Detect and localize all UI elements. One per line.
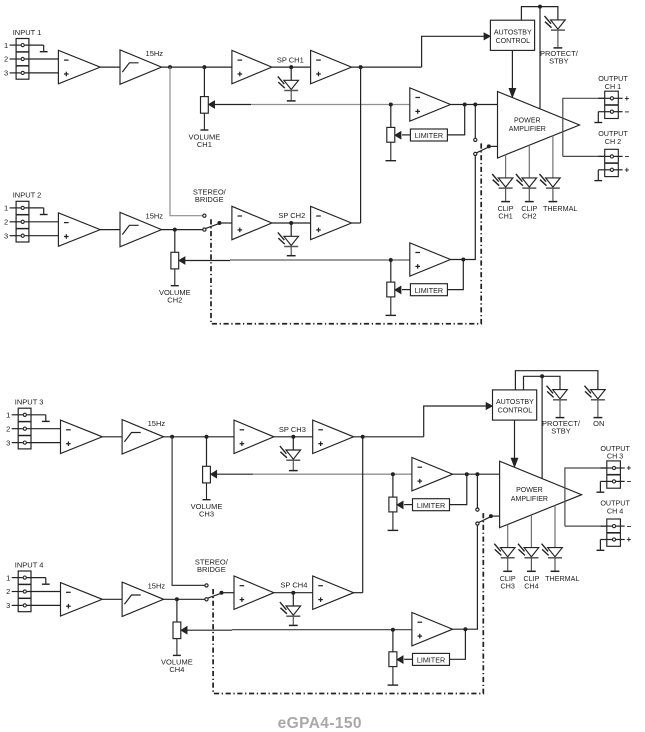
power amplifier CH3/CH4 (500, 461, 582, 528)
wire autostby to power amp with arrow (509, 50, 515, 97)
wire (274, 436, 313, 438)
wire pin3 to non-inverting input (27, 442, 61, 444)
wire pin2 to inverting input (25, 58, 59, 60)
junction (170, 435, 174, 439)
svg-text:THERMAL: THERMAL (545, 574, 579, 583)
svg-text:3: 3 (6, 601, 10, 610)
svg-text:−: − (624, 152, 629, 161)
block LIMITER CH2 (410, 284, 447, 296)
svg-text:STBY: STBY (549, 57, 569, 66)
wire (453, 473, 500, 475)
svg-text:CH2: CH2 (522, 212, 536, 221)
LED CLIP CH4 (518, 544, 539, 572)
15Hz high-pass filter CH4 (122, 582, 164, 616)
LED PROTECT/STBY (545, 16, 566, 48)
op-amp CH1 buffer (232, 50, 272, 83)
ground at input (40, 45, 48, 52)
label VOLUME CH4 (161, 658, 193, 675)
label OUTPUT CH 1 (598, 74, 628, 91)
15Hz high-pass filter CH3 (122, 420, 164, 454)
switch contact (474, 152, 477, 155)
wire (164, 598, 205, 600)
svg-text:2: 2 (6, 424, 10, 433)
input terminal block J3 (12, 408, 31, 449)
label INPUT 4 (15, 560, 44, 569)
wire (476, 474, 478, 508)
limiter level resistor CH3 (388, 497, 403, 530)
label CLIP CH2 (521, 204, 537, 220)
label STEREO/BRIDGE (195, 557, 229, 574)
volume potentiometer CH2 (171, 252, 185, 285)
label STEREO/BRIDGE (193, 188, 227, 205)
pin number 2 (4, 218, 8, 227)
wire (100, 66, 120, 68)
wire (392, 474, 394, 497)
svg-text:2: 2 (6, 587, 10, 596)
junction (291, 591, 295, 595)
op-amp CH2 buffer (232, 206, 272, 239)
svg-text:CH 2: CH 2 (605, 137, 621, 146)
svg-text:BRIDGE: BRIDGE (197, 565, 226, 574)
svg-text:CH 3: CH 3 (607, 452, 623, 461)
pin number 2 (6, 424, 10, 433)
limiter op-amp CH4 (412, 613, 453, 646)
junction (489, 514, 493, 518)
svg-text:ON: ON (593, 419, 604, 428)
wire (100, 229, 120, 231)
wire (554, 505, 556, 547)
junction (538, 5, 542, 9)
value label 15Hz (148, 581, 166, 590)
wire (206, 437, 208, 467)
wire to power amp (541, 376, 543, 478)
switch contact (476, 522, 479, 525)
wire pin3 to non-inverting input (25, 235, 59, 237)
junction (359, 65, 363, 69)
svg-text:INPUT 3: INPUT 3 (15, 398, 44, 407)
wire (489, 145, 498, 147)
svg-text:LIMITER: LIMITER (415, 286, 443, 295)
svg-text:SP CH3: SP CH3 (279, 425, 306, 434)
label THERMAL (545, 574, 579, 583)
svg-text:1: 1 (4, 204, 8, 213)
svg-text:AUTOSTBY: AUTOSTBY (496, 399, 534, 406)
svg-text:INPUT 1: INPUT 1 (13, 28, 42, 37)
pin number 3 (6, 438, 10, 447)
switch arm (477, 147, 489, 153)
svg-text:LIMITER: LIMITER (417, 656, 445, 665)
wire (290, 67, 292, 80)
wire (505, 155, 507, 178)
wire (390, 260, 392, 283)
label PROTECT/STBY (540, 49, 579, 65)
op-amp CH4 buffer (234, 576, 274, 609)
value label 15Hz (146, 49, 164, 58)
LED THERMAL (540, 174, 561, 202)
LED CLIP CH3 (494, 544, 515, 572)
svg-text:eGPA4-150: eGPA4-150 (278, 715, 362, 732)
volume potentiometer CH1 (200, 97, 214, 130)
block AUTOSTBY CONTROL (493, 390, 537, 420)
wire to stereo/bridge switch (170, 67, 203, 216)
wire limiter to resistor (402, 289, 410, 291)
svg-text:15Hz: 15Hz (146, 49, 164, 58)
junction (217, 221, 221, 225)
label CLIP CH1 (498, 204, 514, 220)
op-amp CH1 detector (311, 50, 352, 83)
wire pin2 to inverting input (27, 591, 61, 593)
input op-amp CH3 (61, 420, 103, 453)
wire pin3 to non-inverting input (25, 72, 59, 74)
wire pin2 to inverting input (25, 221, 59, 223)
label SP CH1 (277, 55, 304, 64)
svg-text:SP CH4: SP CH4 (280, 581, 307, 590)
junction (361, 435, 365, 439)
switch contact (474, 138, 477, 141)
wire to stereo/bridge switch (172, 437, 205, 586)
junction (205, 435, 209, 439)
junction (473, 103, 477, 107)
block LIMITER CH4 (413, 653, 450, 665)
wire output bus (565, 468, 607, 526)
switch contact (203, 214, 206, 217)
svg-text:BRIDGE: BRIDGE (195, 195, 224, 204)
svg-text:3: 3 (4, 69, 8, 78)
svg-text:LIMITER: LIMITER (417, 501, 445, 510)
switch contact (205, 584, 208, 587)
switch contact (476, 508, 479, 511)
wire (552, 136, 554, 178)
wire wiper feedback (187, 629, 412, 632)
wire (176, 599, 178, 622)
label OUTPUT CH 3 (600, 444, 630, 461)
block LIMITER CH1 (410, 129, 447, 141)
svg-text:+: + (624, 94, 629, 103)
output terminal block CH1 (594, 91, 629, 122)
output terminal block CH4 (597, 519, 632, 550)
wire pin1 to ground (25, 207, 44, 209)
wire wiper feedback (217, 473, 412, 475)
svg-text:15Hz: 15Hz (148, 419, 166, 428)
label PROTECT/STBY (542, 419, 581, 435)
output terminal block CH3 (597, 461, 632, 492)
output terminal block CH2 (594, 149, 629, 180)
wire pin1 to ground (27, 577, 46, 579)
pin number 3 (4, 231, 8, 240)
op-amp CH3 detector (313, 420, 354, 453)
svg-text:THERMAL: THERMAL (543, 204, 577, 213)
label VOLUME CH3 (191, 502, 223, 518)
input terminal block J2 (10, 201, 29, 242)
wire (222, 592, 235, 594)
LED SP CH2 (278, 232, 299, 255)
junction (463, 103, 467, 107)
svg-text:CH4: CH4 (524, 581, 538, 590)
wire (354, 592, 363, 594)
wire pin1 to ground (25, 44, 44, 46)
wire (292, 593, 294, 606)
wire (507, 524, 509, 547)
LED SP CH4 (280, 602, 301, 625)
label SP CH4 (280, 581, 307, 590)
switch contact (203, 228, 206, 231)
ground at input (42, 578, 50, 585)
svg-text:AMPLIFIER: AMPLIFIER (509, 126, 546, 133)
svg-text:1: 1 (6, 573, 10, 582)
wire to power amp (539, 7, 541, 109)
svg-text:2: 2 (4, 55, 8, 64)
label CLIP CH4 (523, 574, 539, 590)
svg-text:1: 1 (6, 411, 10, 420)
wire autostby to protect LED (524, 376, 561, 390)
wire (164, 436, 234, 438)
junction (389, 103, 393, 107)
wire (102, 436, 122, 438)
wire (162, 229, 203, 231)
junction (389, 258, 393, 262)
svg-text:−: − (624, 107, 629, 116)
wire limiter to resistor (402, 134, 410, 136)
wire (354, 436, 424, 438)
wire (162, 66, 232, 68)
wire wiper feedback (214, 104, 409, 106)
wire pin1 to ground (27, 414, 46, 416)
svg-text:POWER: POWER (516, 487, 543, 494)
label SP CH3 (279, 425, 306, 434)
input op-amp CH1 (58, 50, 100, 83)
switch arm stereo/bridge (206, 224, 219, 229)
wire (272, 66, 311, 68)
svg-text:CONTROL: CONTROL (496, 38, 531, 45)
svg-text:CH4: CH4 (169, 665, 184, 674)
input terminal block J4 (12, 571, 31, 612)
svg-text:INPUT 4: INPUT 4 (15, 560, 44, 569)
pin number 1 (6, 573, 10, 582)
wire autostby to power amp with arrow (511, 420, 517, 467)
svg-text:+: + (627, 535, 632, 544)
svg-text:LIMITER: LIMITER (415, 131, 443, 140)
LED SP CH3 (280, 446, 301, 471)
wire (203, 67, 205, 97)
block LIMITER CH3 (413, 499, 450, 511)
wire (174, 230, 176, 253)
power amplifier CH1/CH2 (498, 92, 580, 159)
svg-text:+: + (624, 166, 629, 175)
junction (463, 627, 467, 631)
LED THERMAL (542, 544, 563, 572)
wire (528, 145, 530, 178)
value label 15Hz (146, 212, 164, 221)
label OUTPUT CH 4 (600, 499, 630, 516)
wire from CH4 limiter (453, 525, 478, 629)
wire limiter to resistor (404, 658, 412, 660)
svg-text:CH1: CH1 (197, 140, 212, 149)
pin number 3 (6, 601, 10, 610)
junction (487, 144, 491, 148)
LED SP CH1 (278, 76, 299, 101)
wire (390, 105, 392, 128)
value label 15Hz (148, 419, 166, 428)
pin number 2 (6, 587, 10, 596)
svg-text:CH1: CH1 (498, 212, 512, 221)
junction (173, 228, 177, 232)
op-amp CH2 detector (311, 206, 352, 239)
junction (175, 597, 179, 601)
wire channel sum (362, 437, 364, 593)
label VOLUME CH2 (159, 288, 191, 305)
wire from CH2 limiter (451, 156, 476, 260)
wire output bus (563, 98, 605, 156)
input terminal block J1 (10, 39, 29, 80)
svg-text:CH2: CH2 (167, 296, 182, 305)
svg-text:3: 3 (4, 231, 8, 240)
switch arm stereo/bridge (208, 593, 221, 598)
wire (352, 66, 422, 68)
wire (272, 222, 311, 224)
bridge mode boundary (dash-dot) (213, 511, 483, 694)
wire (274, 592, 313, 594)
title eGPA4-150 (278, 715, 362, 732)
svg-text:POWER: POWER (514, 117, 541, 124)
15Hz high-pass filter CH2 (120, 212, 162, 246)
svg-text:SP CH2: SP CH2 (278, 211, 305, 220)
svg-text:3: 3 (6, 438, 10, 447)
volume potentiometer CH4 (173, 622, 187, 655)
junction (289, 221, 293, 225)
wire channel sum (360, 67, 362, 223)
junction (289, 65, 293, 69)
wire limiter output (447, 105, 464, 135)
block AUTOSTBY CONTROL (490, 20, 534, 50)
bridge mode boundary (dash-dot) (211, 141, 481, 324)
wire autostby to protect LED (521, 7, 558, 21)
ground at input (42, 415, 50, 422)
wire limiter output (447, 260, 463, 290)
pin number 2 (4, 55, 8, 64)
svg-text:1: 1 (4, 41, 8, 50)
limiter op-amp CH1 (410, 88, 451, 121)
limiter level resistor CH1 (386, 127, 401, 160)
label INPUT 1 (13, 28, 42, 37)
label INPUT 3 (15, 398, 44, 407)
label ON (593, 419, 604, 428)
pin number 1 (4, 204, 8, 213)
junction (291, 435, 295, 439)
pin number 1 (6, 411, 10, 420)
pin number 3 (4, 69, 8, 78)
svg-text:AUTOSTBY: AUTOSTBY (494, 29, 532, 36)
wire (474, 105, 476, 139)
svg-text:2: 2 (4, 218, 8, 227)
svg-text:+: + (627, 464, 632, 473)
wire (292, 437, 294, 450)
wire (392, 629, 394, 652)
label CLIP CH3 (500, 574, 516, 590)
input op-amp CH4 (61, 583, 103, 616)
wire pin2 to inverting input (27, 428, 61, 430)
limiter op-amp CH3 (412, 458, 453, 491)
svg-text:CH 4: CH 4 (607, 507, 623, 516)
op-amp CH4 detector (313, 576, 354, 609)
switch contact (205, 598, 208, 601)
wire to autostby (422, 33, 490, 67)
svg-text:−: − (627, 522, 632, 531)
wire autostby to ON LED (515, 371, 598, 390)
svg-text:−: − (627, 477, 632, 486)
15Hz high-pass filter CH1 (120, 50, 162, 84)
svg-text:INPUT 2: INPUT 2 (13, 191, 42, 200)
switch arm (479, 517, 491, 523)
svg-text:SP CH1: SP CH1 (277, 55, 304, 64)
junction (465, 472, 469, 476)
wire wiper feedback (185, 259, 410, 262)
wire (290, 223, 292, 236)
svg-text:15Hz: 15Hz (146, 212, 164, 221)
wire (102, 598, 122, 600)
input op-amp CH2 (58, 213, 100, 246)
junction (475, 472, 479, 476)
volume potentiometer CH3 (203, 466, 217, 499)
LED ON (585, 386, 606, 418)
svg-text:STBY: STBY (551, 426, 571, 435)
svg-text:AMPLIFIER: AMPLIFIER (511, 496, 548, 503)
wire (491, 515, 500, 517)
svg-text:CH 1: CH 1 (605, 82, 621, 91)
limiter op-amp CH2 (410, 243, 451, 276)
wire (352, 222, 361, 224)
svg-text:CH3: CH3 (501, 581, 515, 590)
ground at input (40, 208, 48, 215)
LED CLIP CH2 (516, 174, 537, 202)
limiter level resistor CH2 (386, 282, 401, 315)
label OUTPUT CH 2 (598, 129, 628, 146)
junction (168, 65, 172, 69)
junction (461, 258, 465, 262)
wire limiter to resistor (404, 504, 412, 506)
LED PROTECT/STBY (547, 386, 568, 418)
junction (391, 472, 395, 476)
junction (391, 628, 395, 632)
wire (451, 104, 498, 106)
svg-text:CONTROL: CONTROL (498, 408, 533, 415)
label INPUT 2 (13, 191, 42, 200)
junction (540, 374, 544, 378)
LED CLIP CH1 (492, 174, 513, 202)
op-amp CH3 buffer (234, 420, 274, 453)
svg-text:CH3: CH3 (199, 510, 214, 519)
wire (219, 222, 232, 224)
limiter level resistor CH4 (388, 652, 403, 685)
svg-text:15Hz: 15Hz (148, 581, 166, 590)
junction (220, 591, 224, 595)
wire pin3 to non-inverting input (27, 604, 61, 606)
junction (202, 65, 206, 69)
label THERMAL (543, 204, 577, 213)
label VOLUME CH1 (189, 133, 221, 149)
label SP CH2 (278, 211, 305, 220)
wire to autostby (424, 403, 492, 437)
wire limiter output (450, 474, 467, 504)
pin number 1 (4, 41, 8, 50)
wire (530, 515, 532, 548)
wire limiter output (450, 629, 466, 659)
